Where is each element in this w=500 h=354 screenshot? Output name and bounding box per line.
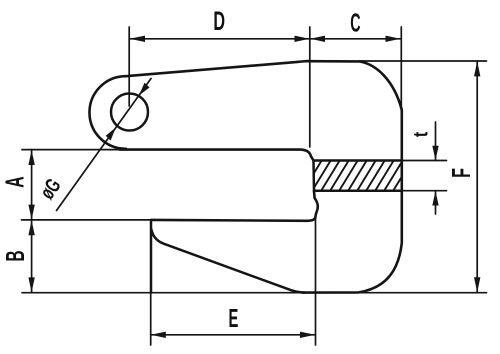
arrow D right: [295, 36, 310, 42]
dimension line F: [476, 61, 478, 293]
svg-text:D: D: [213, 6, 225, 36]
arrow t upper: [432, 146, 438, 161]
arrow C left: [310, 36, 325, 42]
extension vertical x=315.5 (E right): [315, 217, 317, 345]
bar top edge: [120, 150, 314, 161]
dimension line B: [31, 220, 33, 293]
dimension line A: [31, 150, 33, 220]
extension vertical x=309.8 (D/C): [309, 27, 311, 147]
dimension line t upper: [435, 122, 437, 161]
extension vertical x=129.2 (D left): [128, 27, 130, 106]
arrow F bottom: [474, 277, 480, 292]
leader line oG: [57, 79, 152, 211]
jaw left edge: [150, 220, 153, 293]
extension vertical x=150.7 (E left): [150, 293, 152, 345]
arrow oG upper: [139, 83, 150, 96]
arrow F top: [474, 61, 480, 76]
arrow B top: [28, 220, 34, 235]
arrow B bottom: [28, 277, 34, 292]
extension line y=219.9 left (A/B): [22, 219, 152, 221]
arrow E left: [151, 332, 166, 338]
arrow E right: [300, 332, 315, 338]
dimension line t lower: [435, 191, 437, 214]
hatch top edge + t extension: [314, 159, 402, 162]
extension vertical x=400.7 (C right): [400, 27, 402, 112]
hatch area left edge: [312, 161, 315, 192]
svg-text:A: A: [2, 176, 30, 187]
top extension line (F): [359, 60, 487, 62]
extension line y=149.6 left (A top): [22, 149, 120, 151]
arrow C right: [386, 36, 401, 42]
dimension line C: [310, 38, 401, 40]
svg-text:B: B: [2, 250, 30, 261]
hole circle: [111, 94, 148, 131]
svg-text:t: t: [410, 132, 432, 137]
boss outer arc: [89, 76, 126, 149]
svg-text:C: C: [350, 9, 360, 38]
lever arm top edge: [126, 61, 311, 76]
jaw slant edge: [151, 230, 305, 293]
hatch strokes: [294, 160, 412, 191]
hatch bottom edge + t extension: [314, 189, 402, 192]
arrow A bottom: [28, 205, 34, 220]
arrow A top: [28, 150, 34, 165]
arrow t lower: [432, 191, 438, 206]
arrow D left: [130, 36, 146, 42]
bar right contour below hatch: [152, 191, 318, 221]
bottom long line (B/F extension + body bottom): [22, 292, 487, 294]
arrow oG lower: [106, 128, 116, 141]
dimension line D: [129, 38, 310, 40]
body outline: [303, 61, 402, 292]
dimension line E: [151, 334, 316, 336]
svg-text:F: F: [446, 168, 476, 178]
svg-text:E: E: [228, 305, 238, 333]
